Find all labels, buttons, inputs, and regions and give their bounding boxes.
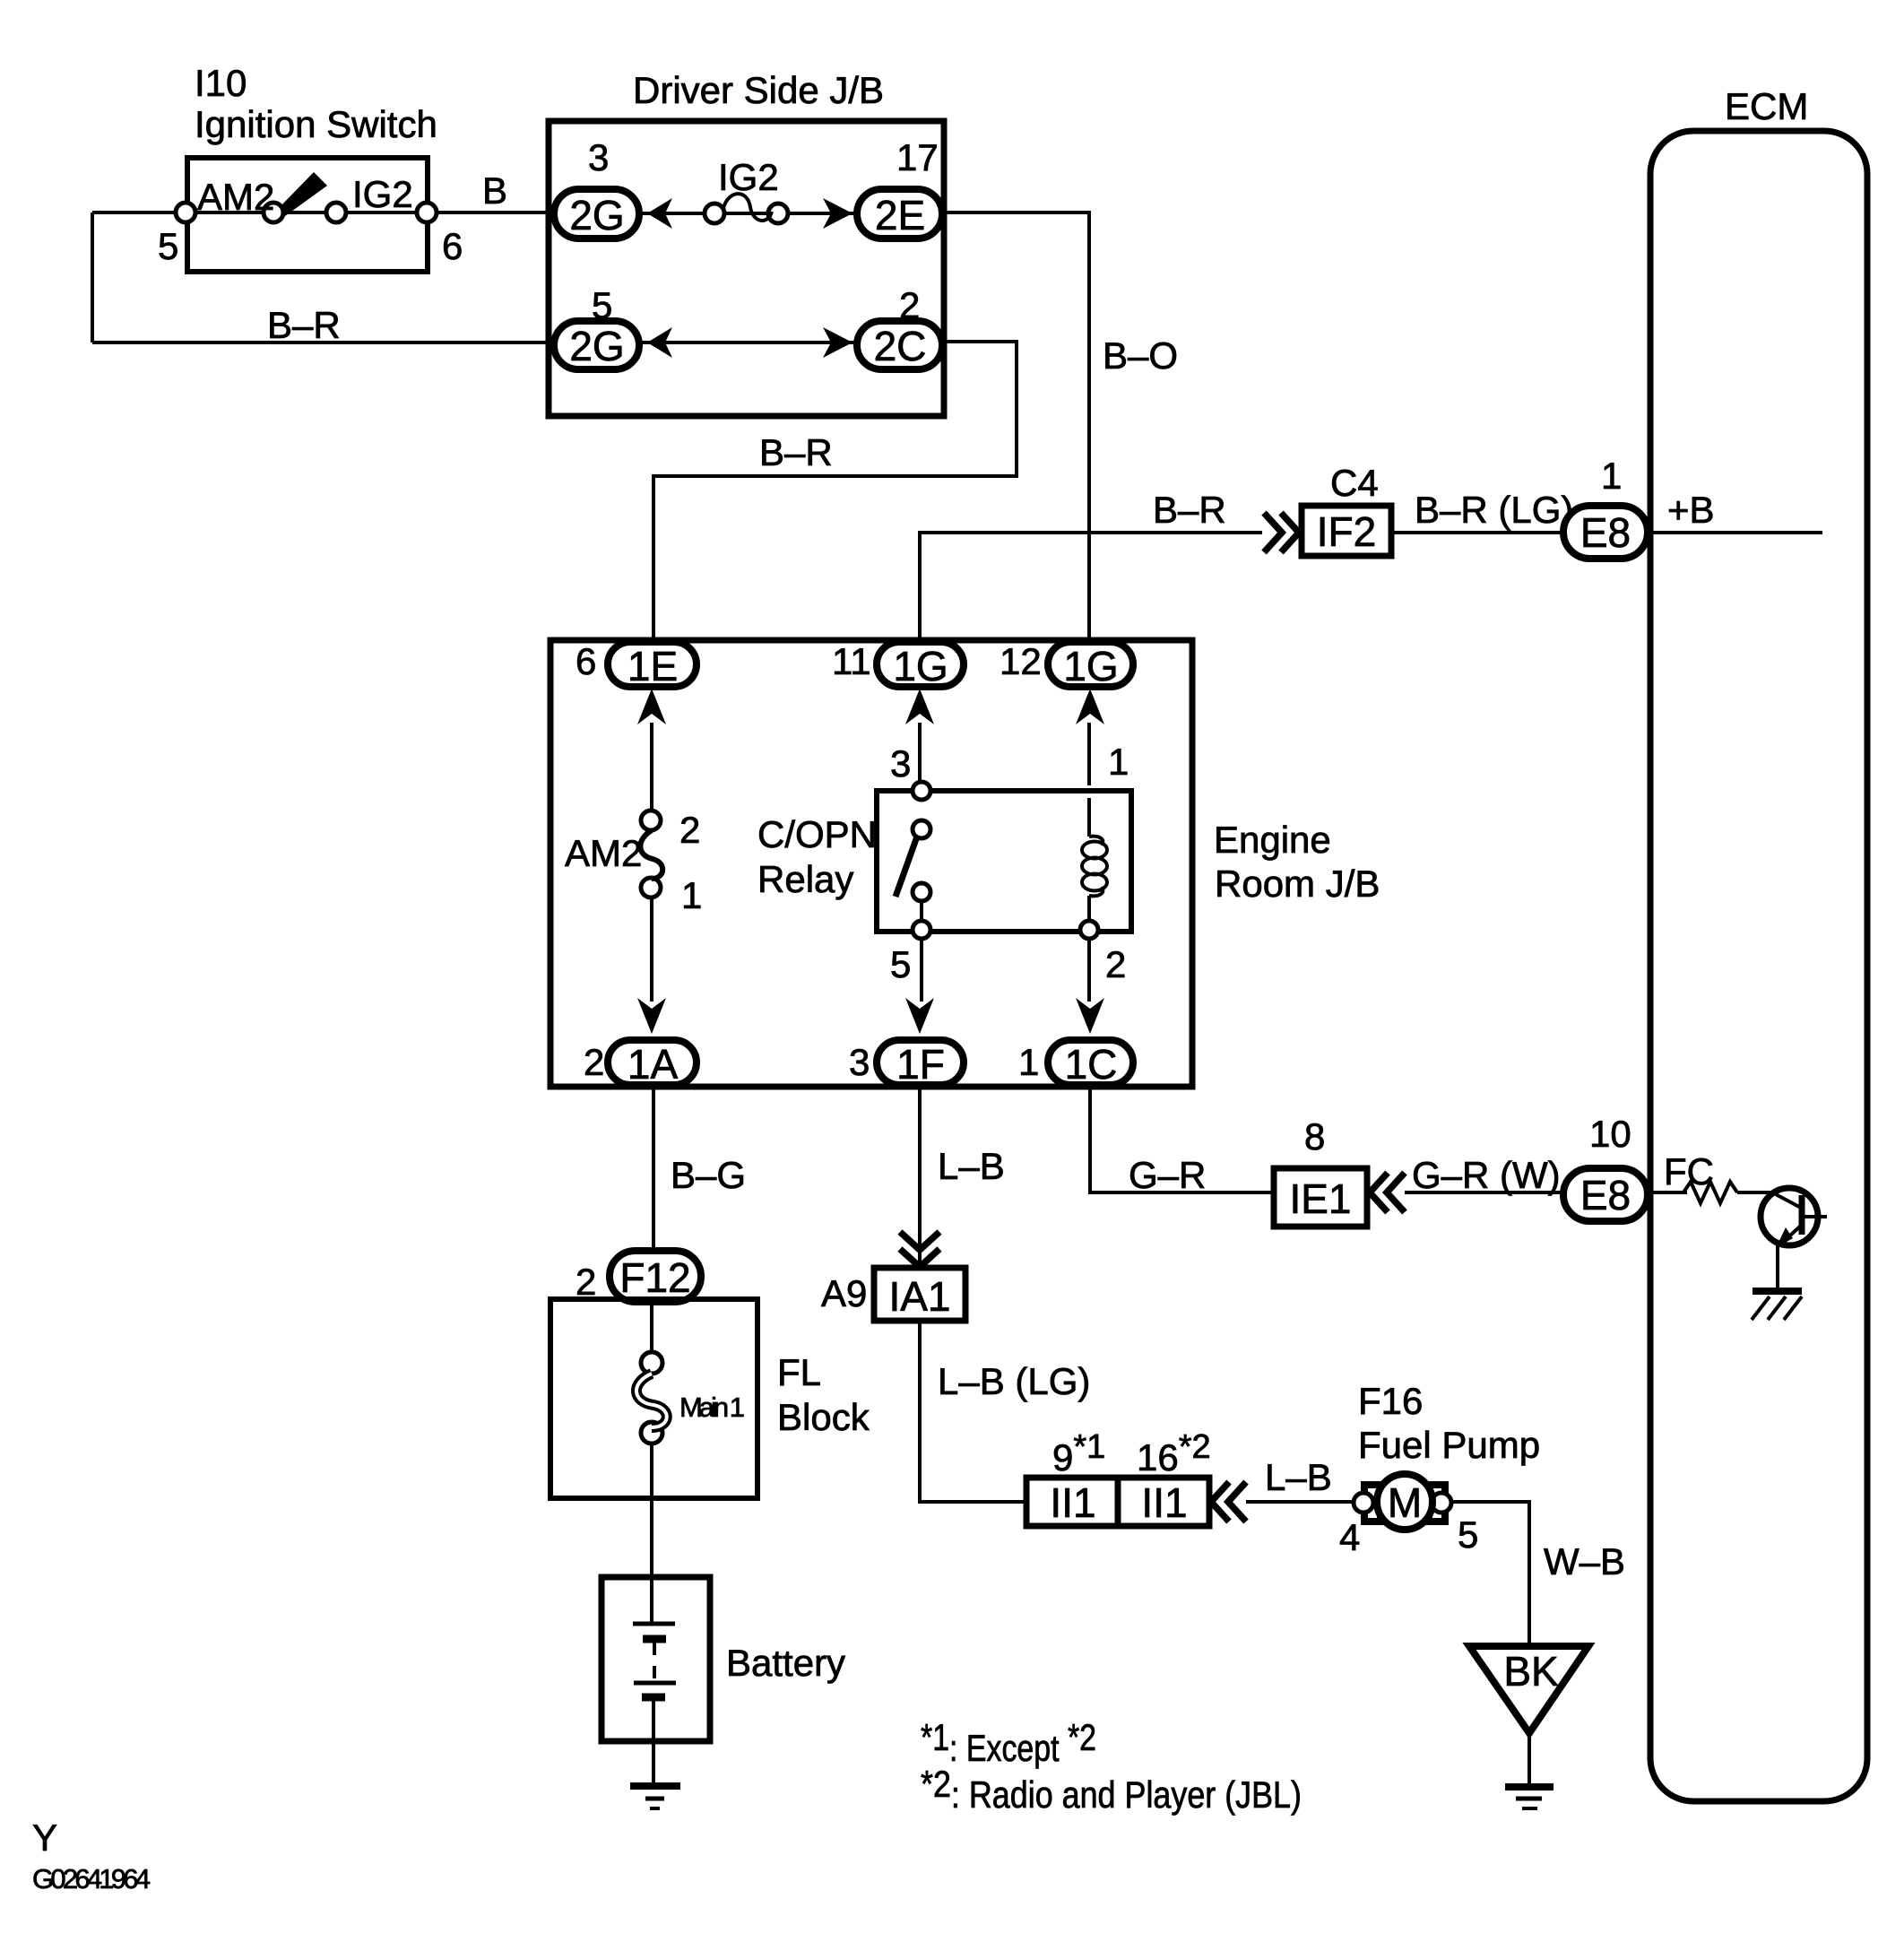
Driver Side J/B box <box>549 121 944 416</box>
FL Block box <box>550 1299 757 1498</box>
contact AM2 <box>264 203 283 222</box>
wire ignition row <box>92 211 554 214</box>
wire +B into ECM <box>1648 531 1822 534</box>
svg-text:C4: C4 <box>1330 462 1379 504</box>
junction box IE1 <box>1274 1168 1367 1227</box>
Engine Room J/B box <box>550 640 1192 1087</box>
svg-text:B–R: B–R <box>1153 489 1226 531</box>
svg-text:II1: II1 <box>1141 1479 1187 1526</box>
svg-text:ECM: ECM <box>1725 85 1808 127</box>
svg-text:C/OPN: C/OPN <box>757 813 877 855</box>
svg-text:B–O: B–O <box>1103 334 1178 377</box>
svg-text:B–R: B–R <box>267 304 341 346</box>
arrow up below 1E <box>637 689 666 724</box>
svg-text:F16: F16 <box>1358 1380 1423 1422</box>
wire 2E to B-O vertical <box>942 212 1089 642</box>
svg-text:G–R: G–R <box>1129 1154 1206 1196</box>
earth ground below BK <box>1505 1783 1553 1791</box>
svg-text:G–R (W): G–R (W) <box>1412 1154 1561 1196</box>
fuel pump motor M <box>1377 1474 1432 1530</box>
junction box IA1 <box>874 1268 965 1321</box>
connector 2C pin2 <box>857 321 942 369</box>
wire relay pin2 to 1C <box>1087 938 1091 1002</box>
connector 1E <box>608 642 697 687</box>
arrow left row2 <box>647 327 672 358</box>
svg-text:1C: 1C <box>1065 1041 1118 1088</box>
arrow up below 1G12 <box>1076 689 1104 724</box>
svg-text:3: 3 <box>849 1041 870 1083</box>
arrow right row2 <box>823 327 852 358</box>
wire motor to BK (W-B) <box>1451 1502 1529 1646</box>
connector 2G pin5 <box>554 321 639 369</box>
junction box II1 left <box>1026 1478 1118 1526</box>
arrow down above 1F <box>905 998 934 1034</box>
transistor base bar <box>1799 1195 1805 1235</box>
wire IG2 fuse row <box>639 212 857 215</box>
arrow down above 1A <box>637 998 666 1034</box>
relay pin 5 <box>913 921 930 939</box>
wire battery to ground <box>652 1701 655 1784</box>
wire resistor to transistor <box>1737 1191 1772 1194</box>
ignition switch I10 box <box>187 158 428 272</box>
svg-text:B–G: B–G <box>671 1154 746 1196</box>
fusible link Main 1 <box>641 1352 662 1374</box>
svg-text:G02641964: G02641964 <box>32 1863 151 1895</box>
svg-text:B–R: B–R <box>759 431 833 473</box>
battery cell 1 short plate <box>643 1635 666 1643</box>
transistor circle <box>1761 1188 1818 1245</box>
svg-text:2: 2 <box>576 1261 596 1303</box>
wire BK to ground <box>1528 1733 1531 1785</box>
chevrons to IF2 <box>1264 513 1299 552</box>
wire 1G11 arrow to relay pin3 <box>918 723 922 785</box>
svg-text:Y: Y <box>32 1817 57 1859</box>
switch lever <box>276 172 327 216</box>
svg-text:Fuel Pump: Fuel Pump <box>1358 1424 1540 1466</box>
svg-text:B–R (LG): B–R (LG) <box>1415 489 1573 531</box>
svg-text:Engine: Engine <box>1214 819 1331 861</box>
svg-text:IG2: IG2 <box>718 156 779 198</box>
svg-text:BK: BK <box>1503 1648 1559 1695</box>
svg-text:2C: 2C <box>874 323 927 369</box>
arrow down above 1C <box>1076 998 1104 1034</box>
svg-text:FL: FL <box>777 1351 821 1393</box>
arrow up below 1G11 <box>905 689 934 724</box>
svg-text:17: 17 <box>896 136 939 178</box>
svg-text:1E: 1E <box>627 643 678 689</box>
svg-text:12: 12 <box>1000 640 1042 682</box>
svg-text:L–B: L–B <box>938 1145 1005 1187</box>
svg-text:AM2: AM2 <box>565 832 642 874</box>
svg-text:E8: E8 <box>1580 509 1631 556</box>
svg-text:Main 1: Main 1 <box>679 1392 745 1423</box>
wire contact to pin5 <box>920 901 923 923</box>
wire IA1 down and right to II1 <box>920 1321 1026 1502</box>
svg-text:W–B: W–B <box>1544 1540 1625 1582</box>
wire Main1 to battery <box>650 1444 653 1624</box>
svg-text:A9: A9 <box>821 1272 867 1314</box>
svg-text:10: 10 <box>1589 1113 1631 1155</box>
relay coil wire top <box>1087 798 1091 837</box>
svg-text:1G: 1G <box>893 643 948 689</box>
svg-text:2: 2 <box>1105 943 1126 985</box>
contact IG2 <box>326 203 346 222</box>
wire IF2 to E8 <box>1391 531 1563 534</box>
connector 1A <box>608 1040 697 1085</box>
svg-text:Battery: Battery <box>726 1642 845 1684</box>
svg-text:M: M <box>1388 1479 1422 1526</box>
connector 1G pin12 <box>1048 642 1133 687</box>
svg-text:8: 8 <box>1304 1115 1325 1158</box>
wire 1F to IA1 (L-B) <box>918 1085 922 1268</box>
svg-text:AM2: AM2 <box>197 176 274 218</box>
pin 6 terminal <box>417 203 437 222</box>
transistor emitter <box>1780 1225 1802 1244</box>
connector 1G pin11 <box>877 642 964 687</box>
resistor FC <box>1683 1182 1737 1203</box>
wire 1E arrow to AM2 fuse <box>650 723 653 811</box>
chassis ground bar <box>1753 1288 1802 1295</box>
ground triangle BK <box>1469 1646 1588 1733</box>
battery cell 2 short plate <box>642 1694 665 1702</box>
svg-text:Ignition Switch: Ignition Switch <box>195 103 437 145</box>
wire chevron to fuel pump <box>1246 1500 1356 1504</box>
relay switch contact top <box>913 820 930 838</box>
motor terminal 4 <box>1354 1493 1373 1513</box>
wire 1C to IE1 (G-R) <box>1090 1085 1274 1192</box>
svg-text:1: 1 <box>1018 1041 1039 1083</box>
wire AM2 fuse to arrow <box>650 897 653 1002</box>
wire 1G11 up and right to IF2 <box>920 533 1262 642</box>
wire B-R from pin 5 to 2G pin 5 <box>92 341 554 344</box>
chevrons down above IA1 <box>900 1232 939 1267</box>
svg-text:11: 11 <box>832 640 871 682</box>
wire 1A to F12 (B-G) <box>652 1085 655 1253</box>
svg-text:6: 6 <box>442 225 463 267</box>
svg-text:5: 5 <box>890 943 911 985</box>
battery cell 1 long plate <box>633 1622 675 1626</box>
relay switch arm <box>896 837 917 897</box>
svg-text:2G: 2G <box>569 192 624 238</box>
svg-text:5: 5 <box>158 225 178 267</box>
chevrons after IE1 <box>1370 1173 1405 1212</box>
svg-text:IE1: IE1 <box>1289 1175 1351 1222</box>
arrow right row1 <box>823 198 852 229</box>
junction box II1 right <box>1118 1478 1209 1526</box>
arrow left row1 <box>647 198 672 229</box>
svg-text:3: 3 <box>588 136 609 178</box>
svg-text:IG2: IG2 <box>352 173 413 215</box>
motor brackets <box>1364 1485 1380 1522</box>
svg-text:L–B (LG): L–B (LG) <box>938 1360 1090 1402</box>
wire relay pin5 to 1F <box>920 938 923 1002</box>
relay pin 3 <box>913 782 930 800</box>
wire IE1 to E8 <box>1405 1191 1563 1194</box>
transistor base diagonal <box>1772 1192 1801 1208</box>
motor terminal 5 <box>1432 1493 1451 1513</box>
earth ground below battery <box>630 1782 680 1790</box>
svg-text:5: 5 <box>1458 1513 1478 1556</box>
svg-text:2: 2 <box>584 1041 604 1083</box>
wire left drop from pin 5 <box>91 212 94 343</box>
chevrons after II1 <box>1211 1482 1246 1522</box>
wire E8 to resistor <box>1648 1191 1687 1194</box>
transistor emitter arrowhead <box>1776 1227 1793 1248</box>
wire F12 to Main1 fuse <box>650 1302 653 1353</box>
connector F12 <box>610 1251 701 1302</box>
svg-text:Block: Block <box>777 1396 870 1438</box>
pin 5 terminal <box>176 203 195 222</box>
connector 1F <box>877 1040 964 1085</box>
svg-text:6: 6 <box>576 640 596 682</box>
relay switch contact bottom <box>913 883 930 901</box>
battery cell 2 long plate <box>634 1681 676 1686</box>
svg-text:IF2: IF2 <box>1317 508 1376 555</box>
relay C/OPN box <box>877 791 1131 932</box>
svg-text:Room J/B: Room J/B <box>1215 863 1380 905</box>
svg-text:1F: 1F <box>896 1041 945 1088</box>
svg-text:Driver Side J/B: Driver Side J/B <box>633 69 884 111</box>
wire 1G12 arrow to relay pin1 <box>1087 723 1091 785</box>
svg-text:B: B <box>482 169 507 212</box>
battery dashed link <box>653 1643 656 1680</box>
relay coil <box>1089 837 1103 845</box>
svg-text:4: 4 <box>1339 1516 1360 1558</box>
fuse AM2 <box>641 811 661 830</box>
svg-text:2E: 2E <box>875 192 925 238</box>
fuse IG2 <box>705 204 724 223</box>
connector 1C <box>1048 1040 1133 1085</box>
connector 2G pin3 <box>554 189 639 238</box>
connector 2E pin17 <box>857 189 942 238</box>
svg-text:L–B: L–B <box>1265 1456 1332 1498</box>
svg-text:1: 1 <box>681 874 702 916</box>
svg-text:1: 1 <box>1601 455 1622 497</box>
relay pin 2 <box>1080 921 1098 939</box>
transistor emitter lead <box>1776 1245 1779 1288</box>
svg-text:IA1: IA1 <box>888 1273 950 1320</box>
svg-text:E8: E8 <box>1580 1172 1631 1218</box>
svg-text:2G: 2G <box>569 323 624 369</box>
svg-text:F12: F12 <box>619 1254 690 1301</box>
wire 2C to 1E <box>653 342 1017 642</box>
svg-text:+B: +B <box>1667 489 1715 531</box>
ECM box <box>1650 131 1867 1801</box>
svg-text:I10: I10 <box>195 62 247 104</box>
junction box IF2 <box>1302 506 1391 556</box>
wire row2 between arrows <box>639 341 857 344</box>
svg-text:Relay: Relay <box>757 858 853 900</box>
svg-text:1G: 1G <box>1063 643 1118 689</box>
svg-text:2: 2 <box>679 809 700 851</box>
connector E8 pin1 <box>1563 506 1648 559</box>
chassis ground slashes <box>1752 1296 1802 1320</box>
connector E8 pin10 <box>1563 1168 1648 1221</box>
svg-text:II1: II1 <box>1050 1479 1095 1526</box>
svg-text:3: 3 <box>890 742 911 785</box>
transistor collector <box>1802 1215 1827 1218</box>
Battery box <box>601 1577 710 1741</box>
svg-text:1: 1 <box>1108 741 1129 783</box>
relay coil wire bottom <box>1087 896 1091 923</box>
svg-text:1A: 1A <box>627 1041 679 1088</box>
